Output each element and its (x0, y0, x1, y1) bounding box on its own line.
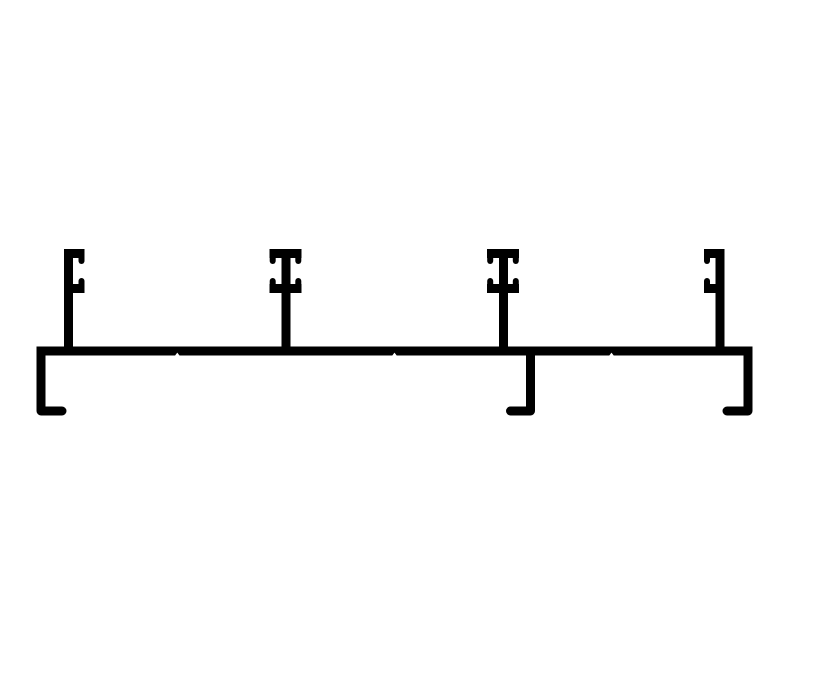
upright 3 top right tooth (513, 254, 519, 262)
upright 4 stem (716, 249, 725, 351)
upright 3 top bar (487, 249, 519, 258)
upright 4 mid arm (704, 284, 720, 293)
upright 2 top left tooth (270, 254, 276, 262)
upright 3 stem (499, 249, 508, 351)
upright 2 top bar (270, 249, 302, 258)
upright 2 mid right tooth (295, 281, 301, 288)
upright 1 top bar (64, 249, 85, 258)
upright 2 mid bar (270, 284, 302, 293)
upright 2 stem (282, 249, 291, 351)
upright 2 top right tooth (295, 254, 301, 262)
upright 4 top bar (704, 249, 725, 258)
left end wall (41, 351, 62, 411)
upright 3 mid bar (487, 284, 519, 293)
middle hanger wall (511, 351, 531, 411)
upright 3 mid left tooth (487, 281, 493, 288)
upright 3 top left tooth (487, 254, 493, 262)
upright 4 mid hook tooth (704, 281, 710, 288)
right end wall (727, 351, 748, 411)
upright 4 top hook tooth (704, 254, 710, 262)
upright 1 top hook tooth (79, 254, 85, 262)
upright 1 mid arm (69, 284, 85, 293)
upright 1 stem (64, 249, 73, 351)
upright 2 mid left tooth (270, 281, 276, 288)
base rail (37, 347, 753, 356)
upright 3 mid right tooth (513, 281, 519, 288)
upright 1 mid hook tooth (79, 281, 85, 288)
